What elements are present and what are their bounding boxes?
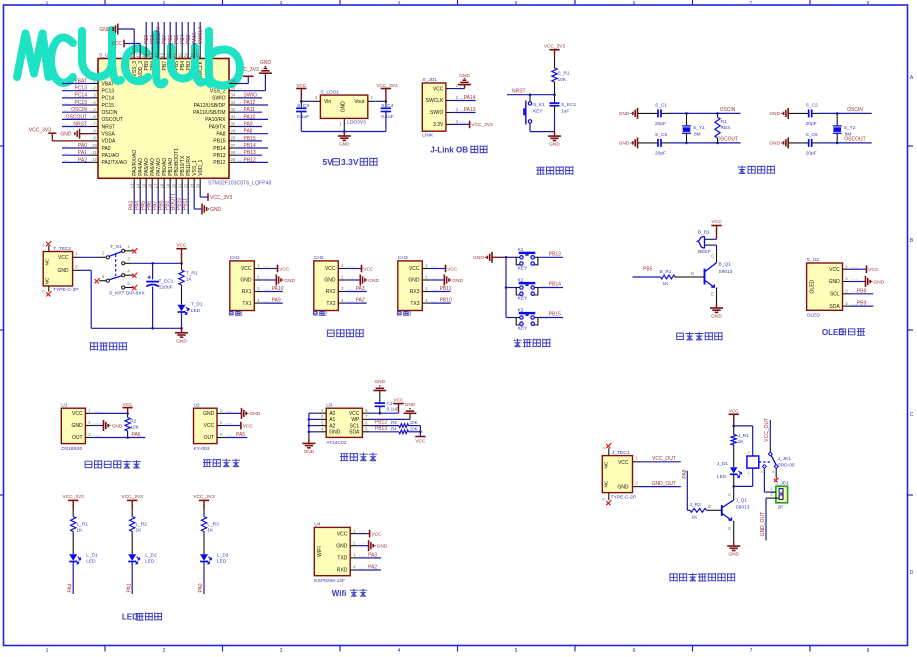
svg-text:GND: GND [336,543,348,549]
resistor J_R1 1K [731,426,749,467]
svg-text:42: 42 [165,53,170,58]
wire [301,100,312,102]
svg-text:NC: NC [45,258,51,265]
svg-text:0.1uF: 0.1uF [381,114,393,120]
svg-text:40: 40 [177,53,182,58]
svg-text:PB12: PB12 [213,160,225,166]
resistor R4 10K [399,430,409,434]
svg-text:Vout: Vout [354,99,365,105]
svg-text:TX2: TX2 [326,301,335,307]
svg-text:VCC_3V3: VCC_3V3 [544,43,566,49]
wire PA4 [72,562,74,595]
svg-text:J_D1: J_D1 [717,461,729,467]
svg-text:22: 22 [183,183,188,188]
ground [358,545,368,547]
svg-text:PB11: PB11 [183,198,189,210]
svg-text:PA10: PA10 [244,114,256,120]
ground [619,137,638,148]
svg-text:PA14: PA14 [464,95,476,101]
svg-text:GND: GND [210,207,222,213]
mcu VDD_2 to VCC_3V3 [237,83,248,85]
svg-text:GND: GND [374,379,385,385]
resistor J_R2 1K [687,502,722,520]
svg-text:PA2/TX/AO: PA2/TX/AO [102,160,128,166]
svg-text:PB15: PB15 [549,312,561,318]
svg-text:GND: GND [473,255,484,261]
svg-text:VSSA: VSSA [102,131,116,137]
caption keys [513,339,521,347]
svg-text:VCC: VCC [433,86,444,92]
svg-text:T_EC1: T_EC1 [159,279,174,285]
svg-text:17: 17 [153,183,158,188]
svg-text:E: E [711,292,714,297]
svg-text:GND: GND [203,411,215,417]
svg-text:PB14: PB14 [549,282,561,288]
svg-text:NC: NC [604,480,610,487]
mcu VDD_3 vcc top-left [124,43,140,45]
svg-text:PB13: PB13 [375,426,387,432]
temperature module U1 DS18B20 [61,402,100,452]
ground [473,252,492,263]
svg-text:VCC: VCC [241,266,252,272]
svg-text:J_JK1: J_JK1 [778,456,792,462]
svg-text:VCC_3V3: VCC_3V3 [210,195,232,201]
svg-text:RX3: RX3 [410,289,420,295]
svg-text:PC13: PC13 [74,86,87,92]
mcu pins right [229,60,272,163]
power VCC [241,422,253,430]
power VCC [851,268,867,270]
wire PA2 [346,302,366,304]
svg-text:SWIO: SWIO [212,96,225,102]
svg-text:VCC: VCC [393,398,404,404]
svg-text:GND: GND [408,278,420,284]
pin 1 gnd stub [343,118,345,126]
svg-text:PA12: PA12 [244,100,256,106]
resistor R3 10K [399,424,409,428]
svg-text:LED: LED [717,474,727,480]
svg-text:C: C [728,492,731,497]
wire PA8 base [686,471,688,511]
svg-text:J_R2: J_R2 [690,502,702,508]
svg-text:VCC: VCC [868,267,879,273]
svg-text:GND: GND [340,101,346,113]
ground [346,279,360,281]
svg-text:2: 2 [163,648,166,654]
mcu U1 body STM32F103C8T6 [98,53,229,179]
svg-text:GND_OUT: GND_OUT [760,512,766,536]
svg-text:1K: 1K [136,528,143,534]
resistor R1 1M [715,112,730,144]
svg-text:46: 46 [141,53,146,58]
svg-text:PA5: PA5 [236,432,245,438]
svg-text:RES: RES [721,125,731,131]
svg-text:S_C4: S_C4 [381,103,393,109]
svg-text:U2: U2 [194,402,201,408]
svg-text:AT24C02: AT24C02 [326,440,347,446]
svg-text:11: 11 [92,150,97,155]
wifi module U4 ESP8266-12F [314,522,365,585]
svg-text:PB13: PB13 [244,150,256,156]
svg-text:30: 30 [231,121,236,126]
svg-text:VCC: VCC [618,460,629,466]
power VCC [358,533,369,535]
svg-text:VCC: VCC [829,267,840,273]
svg-text:19: 19 [165,183,170,188]
wire pin5 SDA PB13 [370,431,399,433]
svg-text:C: C [910,412,914,418]
svg-text:GND: GND [240,278,252,284]
led J_D1 [730,467,738,473]
svg-text:L_R1: L_R1 [77,522,89,528]
mcu VSS_2 to GND [237,90,265,92]
power VCC [262,268,277,270]
svg-text:GND: GND [60,131,72,137]
power VCC [346,268,361,270]
connector CH2 [314,255,353,310]
svg-text:A1: A1 [329,417,335,423]
connector J_TEC1 TYPE-C-2P [602,443,640,505]
wire ground rail [91,327,181,329]
svg-text:OSCOUT: OSCOUT [102,117,123,123]
label [313,312,317,315]
connector CH1 [230,255,269,310]
svg-text:WP: WP [351,417,360,423]
svg-text:U3: U3 [326,402,333,408]
wire NC contact to connector [763,468,765,492]
svg-text:GND: GND [452,278,463,284]
wire pullup rail to VCC [409,426,426,445]
mcu pins left [29,78,98,163]
svg-text:20: 20 [171,183,176,188]
svg-text:VCC: VCC [325,266,336,272]
mcu VSS_3 gnd top-left [118,28,134,30]
switch T_S1 S_KPT [95,244,146,297]
button S_K1 KEY [523,95,545,132]
hall module U2 KY-003 [194,402,232,452]
svg-text:PA2: PA2 [356,298,365,304]
svg-text:VCC: VCC [176,242,187,248]
ground [175,328,188,344]
wire pin8 vcc [370,412,398,414]
svg-text:PA0: PA0 [198,583,204,592]
wire PB5 [633,276,661,278]
svg-text:S_EC1: S_EC1 [561,102,577,108]
svg-text:S_KPT DIP-8XX: S_KPT DIP-8XX [109,291,146,297]
buzzer B_B1 BEEP [698,230,717,255]
svg-text:32: 32 [231,107,236,112]
svg-text:OSCOUT: OSCOUT [844,137,865,143]
svg-text:S9013: S9013 [736,505,750,511]
svg-text:VCC: VCC [72,411,83,417]
svg-text:ESP8266-12F: ESP8266-12F [314,578,345,584]
svg-text:GND: GND [619,111,630,117]
svg-text:VCC: VCC [349,411,360,417]
mcu VSS_1 to GND [193,189,195,209]
svg-text:PB15: PB15 [244,136,256,142]
svg-text:GND: GND [339,142,350,148]
svg-text:S_JD1: S_JD1 [422,77,437,83]
svg-text:GND: GND [99,27,111,33]
caption hall [203,460,211,467]
ground [276,275,295,286]
svg-text:OSCIN: OSCIN [71,107,87,113]
svg-text:43: 43 [159,53,164,58]
svg-text:16: 16 [147,183,152,188]
svg-text:GND: GND [617,485,629,491]
svg-text:LED: LED [86,559,96,565]
svg-text:10K: 10K [558,77,567,83]
svg-text:PB11: PB11 [440,286,452,292]
svg-text:OSCIN: OSCIN [720,107,736,113]
svg-text:SRD-05: SRD-05 [778,462,795,468]
svg-text:VBAT: VBAT [74,78,87,84]
svg-text:SWCLK: SWCLK [426,98,444,104]
svg-text:A0: A0 [329,411,335,417]
wire [530,131,555,133]
svg-text:T_D1: T_D1 [191,302,203,308]
svg-text:0.1uF: 0.1uF [297,114,309,120]
svg-text:1K: 1K [738,439,745,445]
svg-text:VCC: VCC [371,531,382,537]
button K1 KEY [506,247,563,271]
ground [458,73,471,89]
svg-text:GND: GND [619,141,630,147]
svg-text:VCC: VCC [415,439,426,445]
svg-text:21: 21 [177,183,182,188]
resistor L_R2 1K [130,517,135,532]
svg-text:VCC_3V3: VCC_3V3 [471,122,493,128]
svg-text:1K: 1K [692,514,699,520]
svg-text:SWIO: SWIO [244,93,257,99]
svg-text:PA3: PA3 [356,286,365,292]
svg-text:2P: 2P [778,504,784,510]
led strand L_R1/L_D1 [63,494,98,594]
svg-text:PA3: PA3 [368,552,377,558]
ground [369,540,388,551]
wire [711,244,717,246]
svg-text:3.3V: 3.3V [341,157,359,167]
svg-text:PB8: PB8 [857,288,867,294]
svg-text:PC14: PC14 [74,93,87,99]
svg-text:6: 6 [633,648,636,654]
ground [242,408,261,419]
transistor B_Q1 S9013 [705,262,733,289]
svg-text:PB12: PB12 [375,420,387,426]
wire OSCOUT [819,142,872,144]
wire PA1 [131,562,133,595]
power VCC_3V3 [122,494,144,506]
svg-text:0.1uF: 0.1uF [387,407,399,413]
svg-text:3.3V: 3.3V [433,122,444,128]
svg-text:A2: A2 [329,423,335,429]
oled display S_U2 [807,257,858,319]
svg-text:24: 24 [195,183,200,188]
power VCC [867,265,879,273]
svg-text:S_C5: S_C5 [655,132,667,138]
svg-text:PA8: PA8 [216,131,225,137]
svg-text:10K: 10K [130,424,139,430]
svg-text:NRST: NRST [102,124,116,130]
svg-text:PA9: PA9 [272,298,281,304]
svg-text:SCL: SCL [350,423,360,429]
svg-text:3: 3 [280,648,283,654]
svg-text:25: 25 [231,157,236,162]
label [229,312,233,315]
ground [338,132,351,148]
svg-text:VCC: VCC [409,266,420,272]
svg-text:U4: U4 [314,522,321,528]
ground [619,108,638,119]
svg-text:PA1: PA1 [126,583,132,592]
svg-text:SWIO: SWIO [430,110,443,116]
ground [548,132,561,148]
resistor T_R1 1K [181,263,183,270]
wire switch out [133,262,182,264]
power VCC [370,530,382,538]
ground [360,275,379,286]
svg-text:PC15: PC15 [102,103,115,109]
resistor R2 10K [125,413,140,437]
svg-text:BEEP: BEEP [698,249,711,255]
svg-text:RX1: RX1 [242,289,252,295]
led T_D1 [181,285,183,305]
svg-text:R3: R3 [391,420,397,425]
svg-text:S_C2: S_C2 [806,103,818,109]
svg-text:S_K1: S_K1 [533,102,545,108]
svg-text:PA8: PA8 [244,129,253,135]
wire PB8 [851,293,874,295]
capacitor S_C4 0.1uF [381,101,394,131]
button K3 KEY [506,307,563,331]
resistor L_R1 1K [71,517,76,532]
svg-text:8: 8 [867,648,870,654]
resistor L_R3 1K [201,517,206,532]
svg-text:VCC_3V3: VCC_3V3 [29,128,51,134]
svg-text:GND: GND [176,338,187,344]
svg-text:OLED: OLED [809,279,815,293]
power VCC_3V3 [63,494,85,506]
svg-text:OSCOUT: OSCOUT [717,137,738,143]
svg-text:VCC_3V3: VCC_3V3 [193,494,215,500]
mcu VDDA vcc [29,128,90,141]
svg-text:SDA: SDA [829,304,840,310]
svg-text:SDA: SDA [349,430,360,436]
svg-text:34: 34 [231,93,236,98]
svg-text:GND: GND [57,268,69,274]
key circuit [473,247,563,332]
svg-text:S_Y2: S_Y2 [844,125,856,131]
svg-text:DS18B20: DS18B20 [61,446,82,452]
svg-text:GND: GND [769,141,780,147]
wire to relay coil [734,425,753,427]
wire OSCIN [669,112,741,114]
svg-text:OSCIN: OSCIN [102,110,118,116]
capacitor C1 0.1uF [375,391,399,414]
svg-text:PB14: PB14 [213,146,225,152]
svg-text:KEY: KEY [518,326,528,332]
ground [444,275,463,286]
svg-text:GND: GND [728,552,739,558]
capacitor S_C1 20pF [638,103,669,127]
svg-text:10K: 10K [410,420,418,425]
resistor S_R1 10K [552,68,557,82]
wire OSCOUT [669,142,741,144]
svg-text:5V: 5V [323,157,334,167]
svg-text:220uF: 220uF [159,285,173,291]
ground [302,439,315,455]
svg-text:U1: U1 [61,402,68,408]
svg-text:PA13: PA13 [464,107,476,113]
power VCC [446,265,458,273]
svg-text:PA2: PA2 [78,157,87,163]
svg-text:5: 5 [515,648,518,654]
svg-text:GND: GND [368,278,379,284]
svg-text:NRST: NRST [73,121,87,127]
svg-text:1uF: 1uF [561,109,569,115]
svg-text:GND: GND [284,278,295,284]
svg-text:TXD: TXD [337,556,347,562]
svg-text:C1: C1 [387,401,393,407]
svg-text:VCC: VCC [337,531,348,537]
svg-text:VCC: VCC [711,219,722,225]
ground [710,304,723,320]
reset circuit [507,43,577,147]
svg-text:VCC: VCC [363,266,374,272]
caption storage [340,454,348,461]
svg-text:PB10: PB10 [440,298,452,304]
svg-text:PC13: PC13 [102,88,115,94]
svg-text:VCC_3V3: VCC_3V3 [63,494,85,500]
ground pin1 [225,412,242,414]
svg-text:C: C [711,254,714,259]
svg-text:VCC: VCC [447,266,458,272]
svg-text:PA10/RX: PA10/RX [205,117,226,123]
wire rail [505,257,507,317]
pin 2 stub [368,100,376,102]
svg-text:PB5: PB5 [643,266,653,272]
power VCC_3V3 [193,494,215,506]
svg-text:PA8: PA8 [682,469,688,478]
svg-text:PA1/AO: PA1/AO [102,153,120,159]
svg-text:B_B1: B_B1 [698,230,710,236]
led L_D3 [200,554,208,561]
power circuit [42,241,202,344]
svg-text:GND: GND [829,279,841,285]
relay coil J_JK1 SRD-05 [747,450,795,475]
svg-text:GND: GND [377,544,388,550]
svg-text:VDDA: VDDA [102,139,117,145]
wire emitter to ground [733,522,735,542]
caption serial [327,330,334,336]
svg-text:PA9: PA9 [244,121,253,127]
ground [851,281,866,283]
wire GND_OUT [641,486,681,488]
svg-text:10: 10 [92,143,97,148]
wire PB9 [851,305,874,307]
button K2 KEY [506,277,563,301]
capacitor T_EC1 220uF [146,263,174,328]
svg-text:PA1: PA1 [78,150,87,156]
capacitor S_C3 0.1uF [296,101,309,131]
buzzer circuit [633,219,733,320]
regulator S_LDO1 block [296,83,398,148]
wire VCC_OUT [641,461,681,463]
ground [262,279,276,281]
svg-text:L_D2: L_D2 [145,552,157,558]
ground [866,276,885,287]
svg-text:OSCIN: OSCIN [847,107,863,113]
